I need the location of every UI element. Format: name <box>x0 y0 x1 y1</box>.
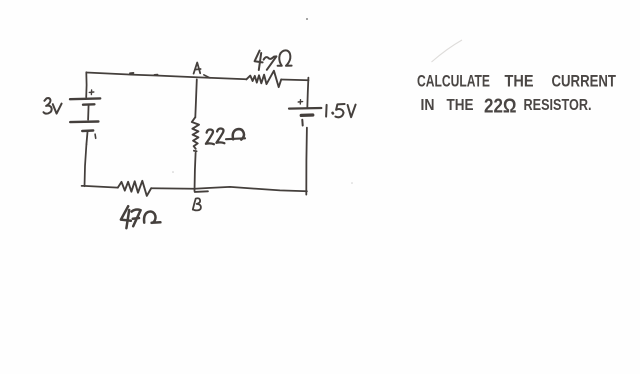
svg-text:CURRENT: CURRENT <box>552 73 617 91</box>
svg-text:22Ω: 22Ω <box>484 95 517 118</box>
svg-text:CALCULATE: CALCULATE <box>417 73 490 91</box>
svg-text:RESISTOR.: RESISTOR. <box>524 97 592 114</box>
svg-text:THE: THE <box>447 97 474 114</box>
svg-text:THE: THE <box>505 73 534 91</box>
svg-text:IN: IN <box>421 97 435 114</box>
